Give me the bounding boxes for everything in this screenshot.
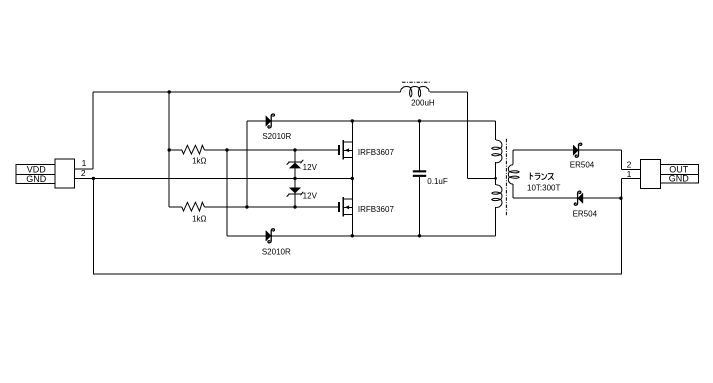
svg-text:VDD: VDD bbox=[27, 165, 47, 175]
svg-text:S2010R: S2010R bbox=[262, 132, 291, 141]
svg-text:S2010R: S2010R bbox=[262, 247, 291, 256]
svg-text:ER504: ER504 bbox=[570, 160, 595, 169]
svg-text:12V: 12V bbox=[303, 163, 318, 172]
svg-text:1: 1 bbox=[82, 158, 87, 168]
svg-text:IRFB3607: IRFB3607 bbox=[358, 148, 395, 157]
svg-text:GND: GND bbox=[669, 174, 690, 184]
svg-text:GND: GND bbox=[26, 174, 47, 184]
svg-text:2: 2 bbox=[81, 168, 86, 178]
svg-text:1: 1 bbox=[627, 169, 632, 179]
svg-text:2: 2 bbox=[627, 159, 632, 169]
svg-text:IRFB3607: IRFB3607 bbox=[358, 205, 395, 214]
svg-text:10T:300T: 10T:300T bbox=[527, 184, 560, 193]
svg-text:1kΩ: 1kΩ bbox=[192, 214, 206, 223]
svg-text:1kΩ: 1kΩ bbox=[192, 157, 206, 166]
svg-text:200uH: 200uH bbox=[411, 98, 435, 107]
svg-text:ER504: ER504 bbox=[573, 210, 598, 219]
svg-text:0.1uF: 0.1uF bbox=[427, 177, 448, 186]
svg-text:12V: 12V bbox=[303, 191, 318, 200]
